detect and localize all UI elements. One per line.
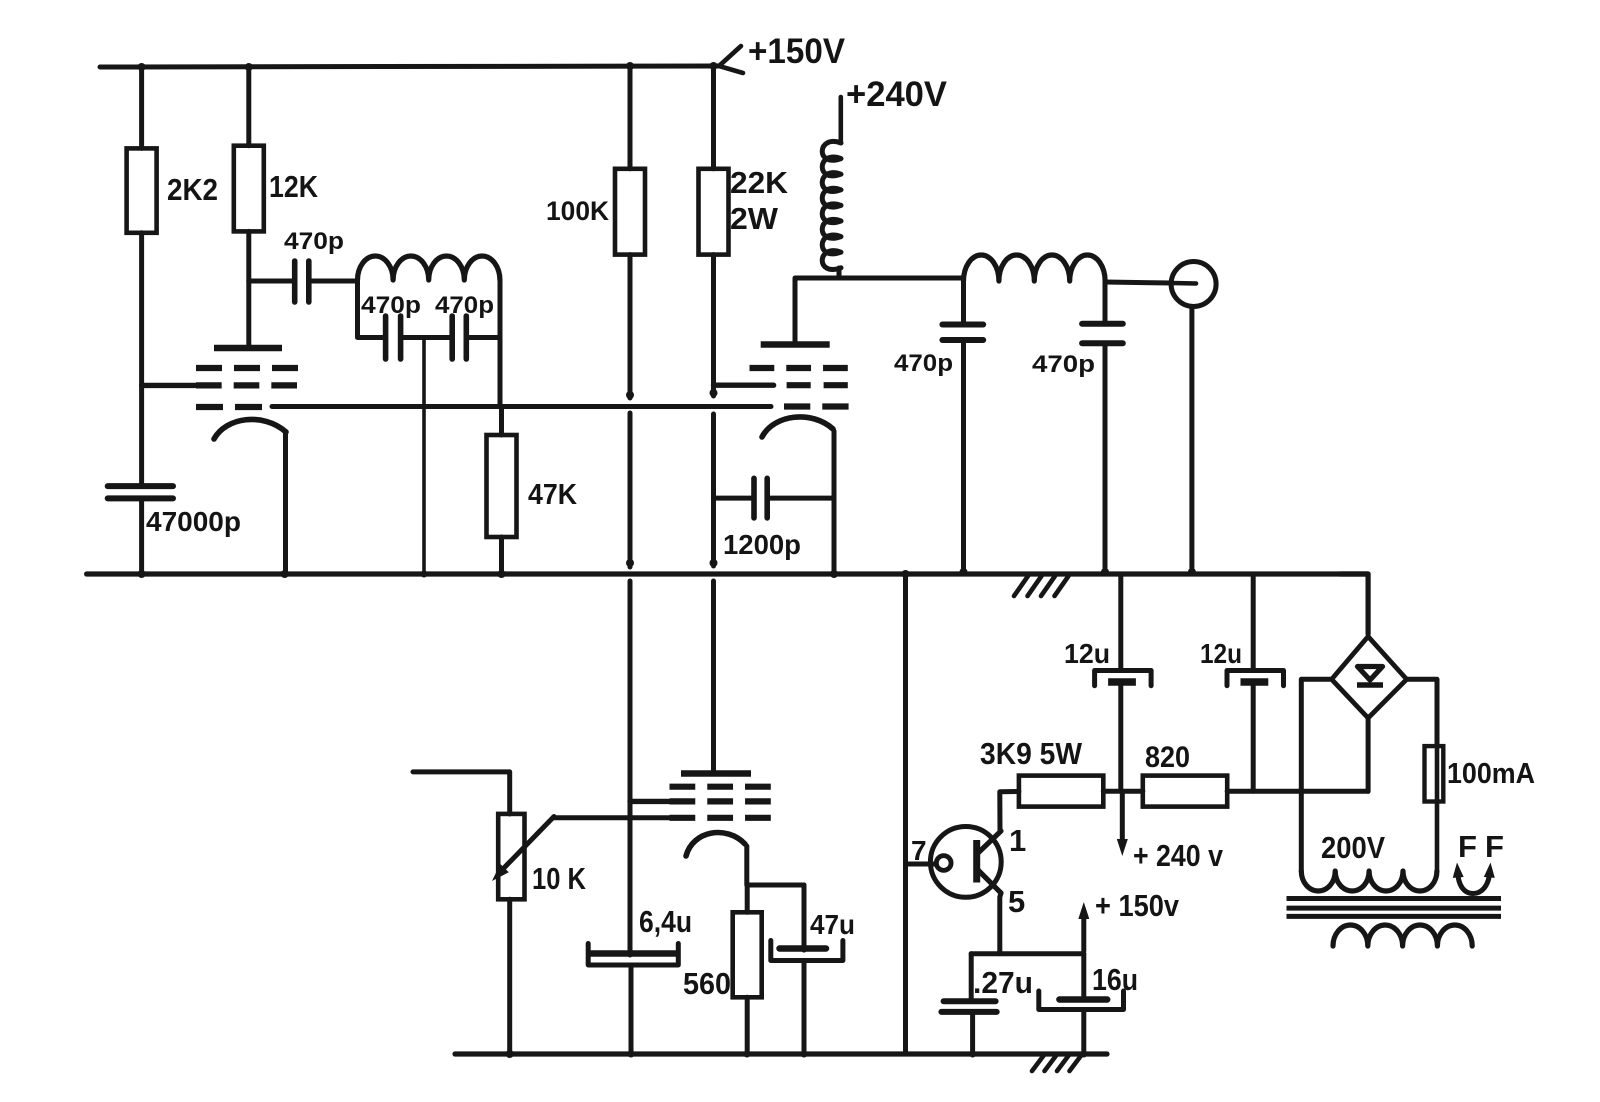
wire tank right leg	[498, 280, 503, 407]
potentiometer 10K body	[498, 814, 524, 899]
tube V2 grid row 3	[784, 403, 810, 409]
wire +240V stub	[838, 97, 843, 143]
svg-text:560: 560	[683, 966, 731, 1001]
tube V3 cathode	[686, 833, 745, 856]
svg-text:470p: 470p	[361, 292, 421, 319]
svg-text:470p: 470p	[284, 228, 344, 255]
svg-text:470p: 470p	[435, 292, 494, 319]
tube V1 grid row 2	[196, 382, 222, 388]
svg-text:12u: 12u	[1064, 638, 1110, 669]
wire wiper to V3 grid	[554, 815, 670, 820]
svg-text:12u: 12u	[1200, 638, 1242, 669]
tube V1 grid row 1	[196, 365, 222, 371]
wire tank left leg	[358, 280, 384, 338]
svg-text:F: F	[1485, 829, 1504, 864]
tube V1 cathode	[214, 419, 286, 439]
+150V supply connector arrow	[719, 46, 741, 66]
resistor 560	[745, 885, 750, 912]
transformer T1 core	[1287, 896, 1502, 901]
arrow +150v	[1081, 914, 1086, 951]
svg-text:200V: 200V	[1321, 830, 1385, 865]
capacitor 470p tank A	[383, 316, 389, 359]
node junction dots on top rail	[138, 63, 146, 71]
potentiometer 10K wiper arrow	[500, 817, 554, 873]
svg-text:47000p: 47000p	[146, 506, 241, 537]
capacitor 12u second	[1251, 574, 1256, 671]
tube V2 grid row 1	[750, 365, 775, 371]
svg-text:47u: 47u	[810, 909, 855, 940]
ground symbol middle	[1014, 576, 1028, 596]
wire V1 cathode to rail	[283, 434, 288, 574]
wire bridge bottom vertex	[1366, 718, 1371, 791]
tube V3 grid row 3	[670, 815, 696, 821]
tube V2 cathode	[762, 417, 833, 437]
svg-text:10 K: 10 K	[532, 861, 587, 896]
transformer T1 secondary	[1333, 925, 1472, 946]
svg-text:2W: 2W	[730, 201, 779, 236]
capacitor 12u first	[1118, 574, 1123, 671]
wire 820 to bridge	[1227, 789, 1368, 794]
capacitor 6,4u	[590, 950, 675, 957]
capacitor 470p coupling	[292, 261, 298, 302]
wire 12K to coupling cap	[249, 279, 292, 284]
arrow +240v tap	[1120, 791, 1125, 843]
capacitor 47000p	[108, 483, 173, 489]
resistor 22K 2W	[711, 66, 716, 169]
wire bridge left vertex down	[1301, 679, 1331, 791]
svg-text:+ 240 v: + 240 v	[1133, 838, 1224, 873]
svg-text:1200p: 1200p	[723, 529, 801, 560]
transistor Q1 base dot	[936, 856, 951, 871]
wire rail to bottom rail vertical	[903, 574, 908, 1054]
svg-text:470p: 470p	[1032, 351, 1095, 378]
ground symbol bottom	[1032, 1055, 1044, 1071]
resistor 820	[1143, 776, 1227, 807]
wire V2 cathode to rail	[832, 431, 837, 574]
svg-text:1: 1	[1009, 823, 1026, 858]
svg-text:16u: 16u	[1092, 962, 1138, 997]
wire choke to anode line	[837, 268, 842, 278]
wire rail corner to bridge	[1340, 574, 1368, 634]
inductor L1	[358, 256, 500, 280]
tube V2 grid row 2	[787, 382, 811, 388]
wire collector to 3K9	[1000, 792, 1019, 832]
svg-text:22K: 22K	[730, 165, 789, 200]
capacitor .27u	[969, 954, 974, 1002]
svg-text:100mA: 100mA	[1447, 758, 1535, 790]
flux arrow coupling	[1458, 870, 1491, 894]
svg-text:F: F	[1458, 829, 1477, 864]
wire tank right	[468, 335, 500, 340]
svg-text:5: 5	[1008, 884, 1025, 919]
output jack connector	[1171, 262, 1216, 307]
tube V3 anode plate	[681, 770, 751, 776]
inductor L2	[964, 255, 1106, 281]
wire pot input	[413, 772, 510, 814]
tube V1 anode plate	[214, 345, 282, 351]
fuse 100mA	[1425, 746, 1444, 801]
svg-text:3K9 5W: 3K9 5W	[980, 736, 1083, 771]
capacitor 47u	[802, 885, 807, 950]
transistor Q1 collector stroke	[978, 831, 1001, 853]
wire 100K lower	[628, 255, 633, 398]
svg-text:470p: 470p	[894, 350, 953, 377]
transistor Q1 base bar	[973, 840, 980, 883]
svg-text:12K: 12K	[269, 169, 319, 204]
svg-text:2K2: 2K2	[167, 172, 218, 207]
capacitor 470p tank B	[449, 316, 455, 359]
wire bridge right vertex	[1407, 679, 1437, 746]
wire tank middle	[402, 335, 450, 340]
inductor RFC choke +240V	[822, 141, 841, 269]
wire middle ground rail	[87, 571, 1368, 576]
wire bridge left to transformer	[1299, 791, 1304, 871]
transistor Q1 body	[930, 827, 1001, 898]
tube V2 anode plate	[761, 341, 830, 347]
wire V3 cathode lead	[747, 846, 804, 885]
wire 22K lower	[711, 255, 716, 396]
wire tank tap to rail	[422, 338, 426, 575]
transistor Q1 emitter stroke	[978, 870, 1001, 893]
wire bottom ground rail	[455, 1051, 1107, 1056]
capacitor 470p shunt A	[942, 322, 983, 328]
svg-text:.27u: .27u	[973, 965, 1033, 1000]
wire base lead	[906, 862, 937, 867]
svg-text:+150V: +150V	[748, 32, 846, 71]
tube V2 grid row 2 lead	[714, 383, 774, 388]
capacitor 1200p	[714, 496, 752, 501]
junction dots bottom rail	[506, 1050, 514, 1058]
svg-text:+ 150v: + 150v	[1095, 888, 1180, 923]
wire grid bus	[272, 404, 771, 409]
wire V2 anode lead	[795, 278, 964, 345]
tube V1 grid row 2 lead	[142, 383, 196, 388]
tube V3 grid row 2 lead	[630, 799, 670, 804]
tube V3 grid row 2	[670, 798, 696, 804]
wire 3K9 to 820	[1103, 789, 1143, 794]
resistor 100K	[628, 66, 633, 169]
bridge rectifier B1 diamond	[1332, 637, 1407, 719]
svg-text:7: 7	[911, 835, 927, 866]
capacitor 16u	[1081, 954, 1086, 1000]
tube V3 grid row 1	[670, 784, 696, 790]
wire +150V top rail	[100, 66, 719, 67]
wire output jack to rail	[1189, 307, 1194, 575]
resistor 12K	[246, 67, 251, 146]
wire L2 to output jack	[1105, 282, 1172, 283]
wire emitter bus	[971, 951, 1084, 956]
tube V1 grid row 3	[196, 404, 223, 410]
resistor 3K9 5W	[1019, 776, 1103, 807]
capacitor 470p shunt B	[1082, 321, 1123, 327]
bridge diode glyph	[1358, 667, 1383, 681]
transformer T1 primary	[1301, 871, 1437, 891]
svg-text:820: 820	[1145, 741, 1190, 774]
resistor 47K	[499, 407, 504, 436]
svg-text:100K: 100K	[546, 196, 609, 226]
resistor 2K2	[139, 67, 144, 148]
wire emitter lead	[1000, 893, 1001, 954]
wire pot lower lead	[507, 899, 512, 1054]
svg-text:+240V: +240V	[846, 75, 948, 114]
junction dots middle rail	[138, 570, 146, 578]
svg-text:6,4u: 6,4u	[639, 904, 692, 939]
svg-text:47K: 47K	[528, 479, 577, 511]
